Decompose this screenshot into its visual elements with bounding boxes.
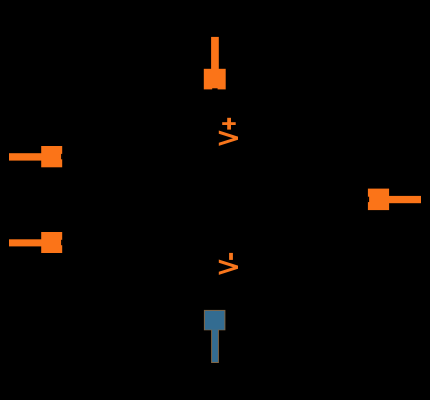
label V+ (rotated 90 CCW): letter V xyxy=(219,131,238,146)
pin 4 V- terminal box (bottom, highlighted blue): orange underlay xyxy=(204,310,226,363)
op-amp U1 body (black on black, not visible) xyxy=(100,100,330,300)
pin 7 V+ terminal box (top) xyxy=(204,69,226,90)
wire: OUT pin stub (right) xyxy=(389,196,421,203)
wire: body-side stub notch over OUT box (black body line) xyxy=(368,197,369,202)
wire: body-side stub notch over V+ box (black body line) xyxy=(212,88,217,89)
label V- (rotated 90 CCW): letter V xyxy=(219,260,238,275)
pin 4 V- terminal box (bottom): blue highlight fill xyxy=(205,311,225,362)
wire: IN+ pin stub (upper left) xyxy=(9,153,42,160)
wire: body-side stub notch over IN+ box (black body line) xyxy=(61,154,62,159)
pin 6 OUT terminal box (right) xyxy=(368,189,389,211)
pin 2 IN- terminal box (lower left) xyxy=(41,232,62,253)
wire: body-side stub notch over IN- box (black body line) xyxy=(61,240,62,245)
label V- (rotated 90 CCW): minus sign xyxy=(229,253,233,260)
pin 3 IN+ terminal box (upper left) xyxy=(41,146,62,167)
label V+ (rotated 90 CCW): plus sign xyxy=(222,118,236,130)
wire: IN- pin stub (lower left) xyxy=(9,239,42,246)
wire: V+ supply pin stub (top) xyxy=(211,37,219,70)
